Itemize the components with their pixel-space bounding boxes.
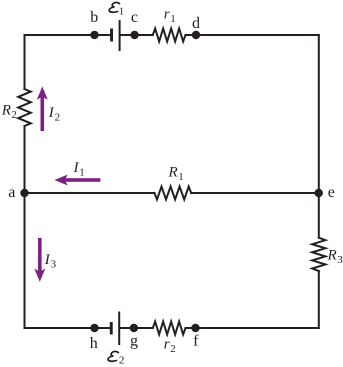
EMF source label script-E 2 xyxy=(108,351,119,361)
svg-text:3: 3 xyxy=(337,254,343,266)
wire right upper segment (top corner to node e) xyxy=(318,35,320,193)
wire right lower segment (R3 to bottom corner) xyxy=(318,271,320,328)
wire bottom middle segment (r2 to battery long plate) xyxy=(120,327,153,329)
node a junction dot xyxy=(20,189,28,197)
svg-text:1: 1 xyxy=(119,6,125,18)
node c junction dot xyxy=(130,31,138,39)
battery EMF2 long plate (positive) xyxy=(118,312,120,346)
current arrow I1 (pointing left) xyxy=(55,175,101,186)
resistor r2 xyxy=(153,322,186,335)
svg-text:a: a xyxy=(8,184,15,201)
svg-text:1: 1 xyxy=(178,171,184,183)
wire top-right segment (r1 through node d to corner) xyxy=(186,34,319,36)
wire bottom-left segment (battery short plate to corner) xyxy=(25,327,112,329)
wire middle segment (node a to resistor R1) xyxy=(25,192,155,194)
wire bottom-right segment (corner through node f to r2) xyxy=(186,327,319,329)
node g junction dot xyxy=(130,324,138,332)
node d junction dot xyxy=(192,31,200,39)
current arrow I3 (pointing down) xyxy=(34,238,45,282)
svg-text:e: e xyxy=(328,184,335,201)
EMF source label script-E 1 xyxy=(109,2,120,12)
resistor R1 xyxy=(154,187,191,200)
svg-text:2: 2 xyxy=(55,112,61,124)
svg-text:d: d xyxy=(192,15,200,32)
battery EMF1 short plate (negative) xyxy=(110,29,113,42)
svg-text:h: h xyxy=(90,335,98,352)
svg-text:1: 1 xyxy=(79,167,85,179)
wire right middle segment (node e to resistor R3) xyxy=(318,193,320,238)
svg-text:2: 2 xyxy=(11,109,17,121)
svg-text:r: r xyxy=(164,337,170,353)
node h junction dot xyxy=(90,324,98,332)
svg-text:R: R xyxy=(168,165,178,181)
resistor r1 xyxy=(153,29,186,42)
wire left upper segment (R2 to top corner) xyxy=(24,35,26,89)
svg-text:R: R xyxy=(327,248,337,264)
svg-text:2: 2 xyxy=(170,343,176,355)
svg-text:2: 2 xyxy=(119,355,125,367)
wire top-left segment (corner to battery short plate) xyxy=(25,34,112,36)
svg-text:b: b xyxy=(90,9,98,26)
battery EMF2 short plate (negative) xyxy=(110,322,113,335)
resistor R2 xyxy=(18,89,31,126)
node f junction dot xyxy=(191,324,199,332)
svg-text:c: c xyxy=(131,9,138,26)
wire middle-right segment (R1 to node e) xyxy=(191,192,319,194)
resistor R3 xyxy=(312,238,325,271)
svg-text:g: g xyxy=(130,333,138,350)
current arrow I2 (pointing up) xyxy=(37,87,48,132)
battery EMF1 long plate (positive) xyxy=(119,20,121,51)
wire left middle segment (node a to resistor R2) xyxy=(24,126,26,193)
svg-text:f: f xyxy=(193,333,199,350)
svg-text:1: 1 xyxy=(170,13,176,25)
svg-text:r: r xyxy=(164,7,170,23)
node e junction dot xyxy=(315,189,323,197)
svg-text:3: 3 xyxy=(51,259,57,271)
svg-text:R: R xyxy=(1,103,11,119)
node b junction dot xyxy=(90,31,98,39)
wire top middle segment (battery long plate to resistor r1) xyxy=(120,34,153,36)
wire left lower segment (bottom corner to node a) xyxy=(24,193,26,328)
